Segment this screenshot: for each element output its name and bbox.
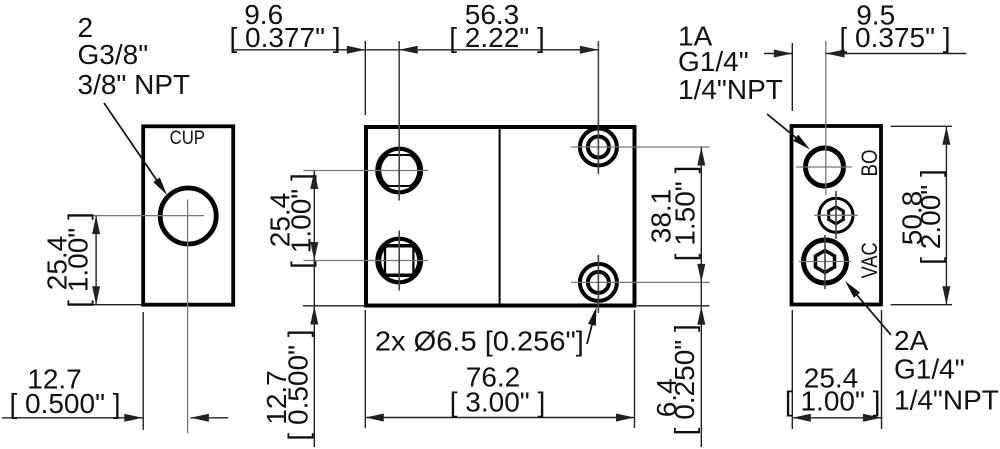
- svg-text:BO: BO: [857, 150, 882, 177]
- bottom-right hole crosshair: [571, 281, 710, 283]
- bottom-right counterbore hole: [580, 264, 617, 301]
- top-right hole crosshair: [571, 146, 710, 148]
- svg-text:[ 3.00" ]: [ 3.00" ]: [450, 387, 546, 418]
- svg-text:2A: 2A: [894, 325, 929, 356]
- top-right counterbore hole: [580, 129, 617, 166]
- svg-text:[ 0.375" ]: [ 0.375" ]: [839, 22, 950, 53]
- BO port circle: [806, 148, 844, 186]
- svg-text:[ 0.377" ]: [ 0.377" ]: [229, 22, 340, 53]
- circle centerline vertical: [187, 200, 189, 434]
- dim 25.4 / 12.7 mid left: [303, 171, 365, 448]
- middle view body outline: [366, 127, 635, 306]
- left holes centerline vertical (extension from top dims): [398, 41, 400, 201]
- dim 25.4/1.00 left view: [69, 216, 143, 305]
- BO crosshair: [796, 166, 852, 168]
- circle centerline horizontal: [69, 215, 204, 217]
- svg-text:2x Ø6.5 [0.256"]: 2x Ø6.5 [0.256"]: [375, 326, 584, 357]
- svg-text:[ 1.00" ]: [ 1.00" ]: [785, 386, 881, 417]
- dim 38.1 / 6.4 right of middle view: [637, 147, 710, 447]
- svg-text:[ 0.500" ]: [ 0.500" ]: [9, 388, 120, 419]
- dim 12.7/0.500 bottom of left view: [2, 312, 228, 430]
- leader for 2x note: [587, 307, 597, 344]
- leader for port 2: [104, 103, 167, 195]
- dim 25.4 bottom right view: [792, 310, 882, 429]
- svg-text:1/4"NPT: 1/4"NPT: [678, 74, 783, 105]
- dim 50.8 far right: [891, 126, 952, 304]
- middle small port: [819, 198, 853, 232]
- dim 9.5 top right: [764, 43, 967, 111]
- svg-text:[ 0.500" ]: [ 0.500" ]: [283, 329, 314, 440]
- svg-text:[ 1.00" ]: [ 1.00" ]: [62, 212, 93, 308]
- svg-text:3/8" NPT: 3/8" NPT: [78, 69, 191, 100]
- svg-text:VAC: VAC: [857, 242, 882, 278]
- bottom-left threaded hole: [377, 239, 421, 283]
- left view body outline: [143, 126, 233, 304]
- VAC crosshair: [799, 261, 851, 263]
- middle divider line: [499, 128, 501, 306]
- VAC port: [804, 240, 847, 283]
- top-left hole crosshair: [303, 170, 428, 172]
- middle port crosshair: [815, 214, 858, 216]
- port circle 2: [160, 188, 216, 244]
- svg-text:CUP: CUP: [170, 128, 205, 149]
- top-left threaded hole: [377, 149, 421, 193]
- svg-text:[ 2.00" ]: [ 2.00" ]: [915, 169, 946, 265]
- leader for 2A: [845, 281, 891, 335]
- svg-text:1/4"NPT: 1/4"NPT: [894, 385, 999, 416]
- dim 76.2 bottom of middle view: [365, 310, 634, 428]
- svg-text:[ 1.50" ]: [ 1.50" ]: [670, 166, 701, 262]
- dim 9.6 / 56.3 top: [233, 41, 598, 115]
- svg-text:[ 2.22" ]: [ 2.22" ]: [449, 22, 545, 53]
- right holes centerline vertical (extension from top dims): [597, 41, 599, 174]
- right view body outline: [792, 126, 882, 305]
- svg-text:G1/4": G1/4": [894, 354, 965, 385]
- leader for 1A: [767, 114, 810, 150]
- svg-text:G3/8": G3/8": [78, 39, 149, 70]
- svg-text:G1/4": G1/4": [678, 46, 749, 77]
- svg-text:[ 0.250" ]: [ 0.250" ]: [669, 324, 700, 435]
- svg-text:[ 1.00" ]: [ 1.00" ]: [286, 173, 317, 269]
- bottom-left hole crosshair: [303, 260, 428, 262]
